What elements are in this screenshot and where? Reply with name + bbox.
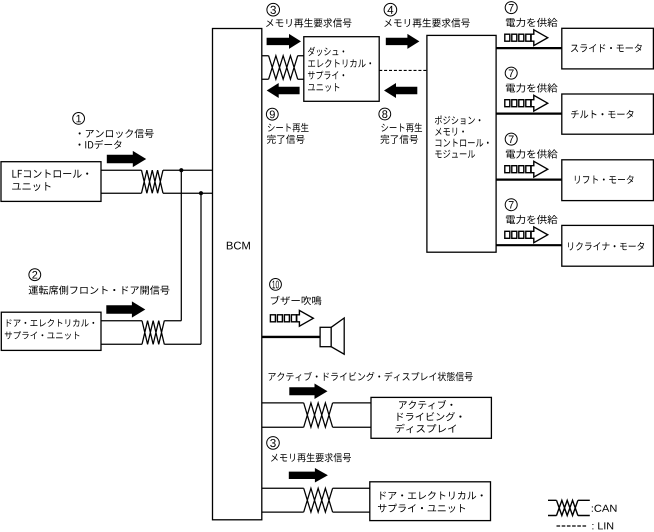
junction dot on LF top wire [179, 168, 183, 172]
circled number 7 tilt [505, 67, 517, 79]
circled number 4 [384, 3, 397, 16]
box: door electrical supply unit (left) [1, 312, 101, 350]
circled number 7 recliner [505, 199, 517, 211]
text: lift motor [575, 175, 634, 184]
power supply symbol to recliner motor [505, 227, 548, 243]
text: recliner motor [568, 242, 644, 251]
label: power supply tilt [506, 83, 558, 92]
text: door unit left line1 [7, 319, 95, 327]
power supply symbol to slide motor [505, 30, 548, 46]
legend: CAN text [592, 505, 617, 512]
wire: vertical tap from LF bottom wire down to door unit bottom wire [200, 193, 202, 344]
circled number 7 lift [505, 133, 517, 145]
label: memory request signal (3 top) [266, 18, 352, 27]
wire: door electrical supply unit twisted pair (CAN) [100, 321, 201, 345]
box: lift motor [562, 160, 654, 201]
legend: CAN twisted pair symbol [548, 500, 590, 515]
text: display line1 [399, 400, 452, 409]
arrow: seat completion back to BCM (9) [267, 83, 300, 98]
wire: power line to slide motor [496, 47, 562, 49]
text: door unit left line2 [5, 331, 80, 339]
text: door unit bottom line1 [380, 491, 482, 500]
label: power supply recliner [506, 215, 558, 224]
box: dash electrical supply unit [304, 37, 379, 102]
circled number 8 [379, 108, 391, 120]
box: slide motor [562, 28, 654, 69]
wire: BCM to dash electrical supply unit twisted pair (CAN) [262, 56, 304, 79]
box: position memory control module [427, 35, 496, 252]
text: slide motor [571, 44, 642, 53]
label: power supply lift [506, 149, 558, 158]
text: position module line4 [435, 150, 475, 158]
text: position module line2 [435, 128, 464, 136]
box: active driving display [371, 397, 491, 438]
label: door open signal (2) [29, 285, 170, 294]
circled number 3 top [267, 3, 280, 16]
junction dot on LF bottom wire [199, 191, 203, 195]
text: display line2 [397, 412, 461, 421]
arrow: door open signal (2) [106, 301, 145, 317]
text: display line3 [395, 424, 456, 433]
text: position module line1 [435, 116, 481, 125]
arrow: display status signal [289, 383, 327, 399]
label: seat completion line2 (9) [267, 135, 305, 144]
label: memory request signal (4) [384, 18, 470, 27]
wire: power line to lift motor [496, 179, 562, 181]
circled number 7 slide [505, 2, 517, 14]
text: dash unit line1 [308, 47, 344, 56]
wire: LF unit to BCM twisted pair (CAN) [100, 170, 213, 193]
circled number 9 [266, 108, 278, 120]
arrow: seat completion back to dash unit (8) [384, 83, 417, 98]
circled number 3 bottom [267, 437, 280, 450]
label: seat completion line2 (8) [380, 135, 418, 144]
power supply symbol to lift motor [505, 161, 548, 177]
box: LF control unit [1, 162, 101, 202]
wire: power line to recliner motor [496, 244, 562, 246]
label: seat completion line1 (9) [268, 123, 309, 132]
box: recliner motor [562, 225, 654, 266]
wire: vertical tap from LF top wire down to door unit top wire [180, 170, 182, 321]
wire: power line to tilt motor [496, 112, 562, 114]
legend: LIN text [592, 522, 613, 529]
text: LF control unit line2 [12, 182, 50, 191]
box: BCM [213, 29, 262, 520]
text: dash unit line4 [308, 83, 339, 91]
text: LF control unit line1 [12, 169, 88, 177]
label: seat completion line1 (8) [381, 123, 422, 132]
text: BCM [227, 242, 250, 250]
circled number 2 [29, 269, 41, 281]
circled number 1 [73, 113, 85, 125]
label: memory request signal (3 bottom) [271, 453, 351, 462]
arrow: memory request to position module (4) [386, 34, 420, 49]
label: display status signal [269, 372, 473, 381]
text: tilt motor [571, 110, 633, 119]
wire: BCM to active driving display twisted pair (CAN) [262, 403, 371, 427]
box: tilt motor [562, 94, 654, 134]
wire: buzzer line BCM to speaker [262, 336, 320, 338]
label: power supply slide [506, 18, 558, 27]
text: position module line3 [436, 139, 489, 147]
box: door electrical supply unit (bottom) [370, 482, 491, 521]
label: unlock signal line 1 [79, 129, 154, 138]
circled number 10 [270, 279, 282, 291]
speaker symbol [320, 318, 344, 354]
text: dash unit line3 [308, 71, 344, 80]
text: dash unit line2 [308, 59, 371, 68]
label: buzzer sound (10) [271, 296, 322, 305]
wire: BCM to door electrical supply unit twisted pair (CAN) [262, 488, 370, 512]
wire: LIN dashed line dash unit to position module [379, 69, 427, 71]
power supply symbol to tilt motor [505, 95, 548, 111]
arrow: memory request to dash unit (3) [267, 34, 301, 49]
legend: LIN dashed line [557, 525, 588, 527]
arrow: memory request to bottom door unit (3) [289, 468, 328, 483]
arrow: unlock signal into BCM (1) [107, 151, 146, 167]
label: ID data line 2 [78, 140, 121, 149]
text: door unit bottom line2 [378, 504, 465, 513]
power supply symbol buzzer [270, 310, 313, 326]
